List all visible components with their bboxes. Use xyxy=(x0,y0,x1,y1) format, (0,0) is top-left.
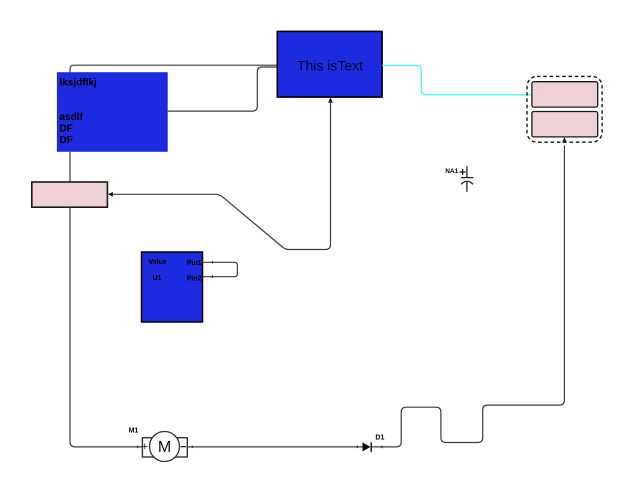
svg-text:Value: Value xyxy=(149,259,167,266)
svg-text:DF: DF xyxy=(60,123,73,134)
svg-text:Pin2: Pin2 xyxy=(187,275,202,282)
svg-text:M1: M1 xyxy=(129,428,139,435)
svg-text:M: M xyxy=(158,439,171,456)
svg-text:NA1: NA1 xyxy=(445,168,458,175)
svg-text:DF: DF xyxy=(60,135,73,146)
svg-text:+: + xyxy=(142,441,148,453)
svg-text:U1: U1 xyxy=(153,275,162,282)
svg-text:Pin1: Pin1 xyxy=(187,260,202,267)
svg-text:asdlf: asdlf xyxy=(60,112,84,123)
svg-text:D1: D1 xyxy=(375,435,384,442)
svg-text:This isText: This isText xyxy=(297,58,363,74)
svg-text:lksjdflkj: lksjdflkj xyxy=(60,77,97,88)
